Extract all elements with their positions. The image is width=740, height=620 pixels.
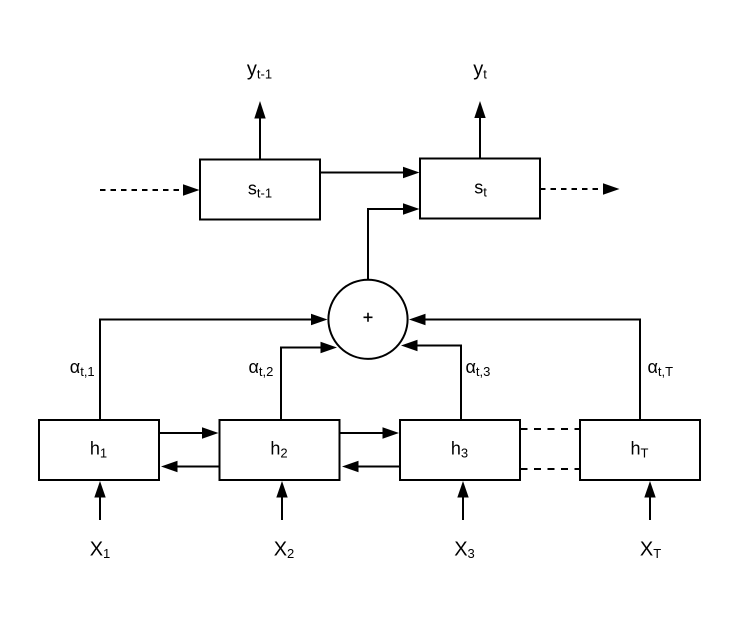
wire: x_1 input arrow bbox=[94, 481, 105, 520]
wire: h_2 to sum circle bbox=[281, 342, 337, 420]
box s_t bbox=[420, 159, 540, 219]
box h_3 bbox=[400, 420, 520, 480]
wire: h_1 to h_2 forward arrow bbox=[160, 427, 219, 438]
wire: h_2 to h_3 forward arrow bbox=[340, 427, 399, 438]
wire: s_t up to y_t bbox=[474, 101, 485, 159]
wire: dashed link h_3 to h_T top bbox=[521, 428, 580, 430]
wire: s_t-1 to s_t bbox=[320, 167, 420, 178]
box h_T bbox=[580, 420, 700, 480]
box s_t-1 bbox=[200, 160, 320, 220]
wire: sum circle to s_t bbox=[368, 203, 420, 280]
wire: dashed arrow out of s_t bbox=[540, 183, 620, 194]
wire: h_1 to sum circle bbox=[100, 314, 328, 420]
wire: dashed link h_3 to h_T bottom bbox=[521, 468, 580, 470]
wire: x_3 input arrow bbox=[457, 481, 468, 520]
wire: x_2 input arrow bbox=[276, 481, 287, 520]
wire: s_t-1 up to y_t-1 bbox=[254, 101, 265, 160]
wire: h_3 to sum circle bbox=[401, 340, 461, 420]
wire: h_2 to h_1 backward arrow bbox=[161, 461, 219, 472]
wire: dashed arrow into s_t-1 bbox=[100, 184, 200, 195]
box h_2 bbox=[220, 420, 340, 480]
wire: h_T to sum circle bbox=[409, 314, 640, 420]
box h_1 bbox=[39, 420, 159, 480]
wire: h_3 to h_2 backward arrow bbox=[342, 461, 400, 472]
sum circle + bbox=[328, 280, 407, 359]
wire: x_T input arrow bbox=[644, 481, 655, 520]
